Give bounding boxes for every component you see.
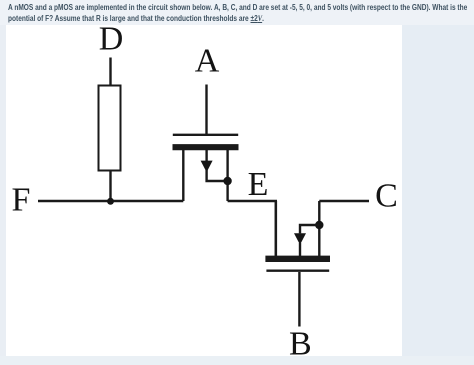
wire A to gate of Q1	[205, 85, 207, 136]
wire E: Q1 source to Q2 drain	[228, 201, 276, 256]
resistor R	[99, 86, 121, 171]
transistor Q1 gate plate	[173, 134, 238, 136]
transistor Q2 left leg (drain)	[275, 201, 277, 256]
transistor Q1 channel bar	[173, 144, 239, 150]
node B label	[289, 326, 312, 363]
svg-text:B: B	[289, 326, 312, 363]
transistor Q1 body arrow	[205, 150, 207, 161]
transistor Q2 body arrow	[300, 225, 319, 233]
wire resistor to node F line	[109, 170, 111, 202]
wire gate of Q2 to B	[298, 272, 300, 327]
node A label	[195, 43, 220, 80]
transistor Q1 left leg (drain)	[182, 150, 184, 201]
node F label	[12, 182, 31, 219]
transistor Q2 gate plate	[266, 270, 329, 272]
background strips	[0, 0, 474, 25]
svg-text:C: C	[375, 178, 398, 215]
wire C horizontal	[319, 200, 369, 202]
question text	[8, 2, 467, 25]
svg-text:F: F	[12, 182, 31, 219]
wire F horizontal	[38, 200, 183, 202]
svg-text:E: E	[248, 166, 269, 203]
node E label	[248, 166, 269, 203]
svg-text:A: A	[195, 43, 220, 80]
transistor Q1 right leg (source)	[226, 150, 228, 201]
svg-text:D: D	[99, 21, 124, 58]
transistor Q2 channel bar	[265, 256, 330, 262]
transistor Q2 right leg (source)	[318, 201, 320, 256]
node D label	[99, 21, 124, 58]
junction dot Q1 body-source	[223, 177, 231, 185]
junction dot Q2 body-source	[315, 221, 323, 229]
junction dot F/R	[107, 198, 114, 205]
wire D to resistor R	[109, 58, 111, 87]
node C label	[375, 178, 398, 215]
